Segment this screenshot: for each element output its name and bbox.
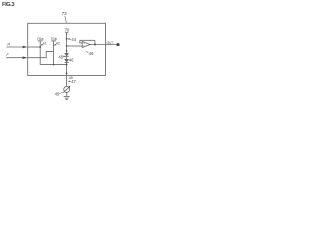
input 1 wire: [7, 46, 25, 48]
svg-text:70a: 70a: [37, 36, 44, 41]
current source arrow: [63, 87, 69, 93]
junction dot above box bottom: [66, 73, 68, 75]
arrowhead at top of center branch: [66, 33, 68, 35]
input 1 wire inside box: [28, 46, 41, 48]
svg-text:47: 47: [71, 79, 76, 84]
input 1 arrowhead: [23, 46, 28, 49]
label 47 with leader arrow: [68, 79, 77, 84]
diode D2 (lower, center branch): [65, 59, 69, 62]
feedback wire loop: [80, 40, 95, 44]
box (circuit block): [28, 23, 106, 75]
svg-text:46: 46: [89, 51, 94, 56]
diode D1 (upper, center branch): [65, 53, 69, 56]
junction dot input1/unit1: [39, 46, 41, 48]
node at 44: [66, 38, 68, 40]
output terminal: [117, 43, 120, 46]
wire center branch vertical: [66, 33, 68, 76]
label 45 current source with leader: [55, 91, 64, 96]
svg-text:44: 44: [71, 37, 76, 42]
svg-text:FIG.3: FIG.3: [2, 2, 14, 8]
op-amp output wire: [90, 44, 117, 46]
svg-text:OUT: OUT: [107, 41, 114, 45]
op-amp U46: [82, 42, 90, 48]
label 73 (block reference): [62, 11, 68, 23]
input 2 wire: [6, 57, 24, 59]
svg-text:R: R: [7, 43, 10, 47]
varactor unit 70a: [37, 36, 47, 64]
junction dot bus/unit2: [53, 64, 55, 66]
varactor unit 70b: [50, 36, 60, 64]
svg-text:41: 41: [43, 42, 47, 46]
wire to op-amp: [67, 45, 83, 47]
current source I1: [64, 86, 70, 92]
bus wire at bottom of branches: [40, 64, 66, 66]
node bar (top of center branch): [65, 32, 68, 34]
junction dot bus/center branch: [66, 64, 68, 66]
label 45 with leader arrow (left): [58, 54, 65, 59]
input 2 wire inside box with jog to unit 70b: [28, 51, 54, 57]
label 46 op-amp with leader: [86, 51, 94, 56]
svg-text:73: 73: [62, 11, 68, 16]
svg-text:42: 42: [56, 42, 60, 46]
svg-text:46: 46: [69, 58, 74, 63]
wire below box to current source: [66, 76, 68, 87]
input 2 arrowhead: [23, 56, 28, 59]
junction dot feedback/output: [94, 44, 96, 46]
ground: [64, 96, 70, 99]
label 46 with leader arrow (right): [69, 58, 74, 63]
svg-text:70: 70: [65, 27, 70, 32]
node above diode stack: [66, 50, 68, 52]
svg-text:70b: 70b: [50, 36, 57, 41]
label 44 with leader arrow: [67, 37, 76, 42]
node to op-amp: [66, 45, 68, 47]
wire current source to ground: [66, 92, 68, 96]
